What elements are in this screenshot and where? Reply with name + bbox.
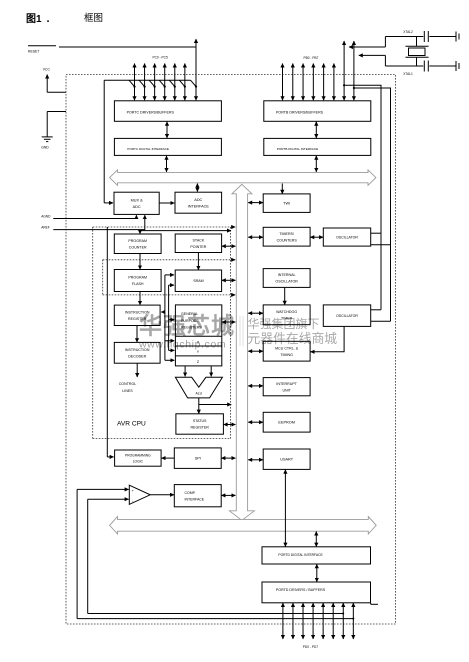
svg-text:XTAL2: XTAL2 bbox=[403, 30, 413, 34]
block PROGRAMMING LOGIC bbox=[115, 450, 162, 466]
PORTD pin column PD0 bbox=[282, 603, 284, 639]
diagonal tap on PC column 0 bbox=[129, 80, 135, 86]
timers to oscillator connector bbox=[310, 236, 323, 238]
diagonal tap on PC column 4 bbox=[169, 80, 175, 86]
tap B into Y register bbox=[169, 349, 175, 351]
PORTC digital to top bus connector bbox=[166, 156, 168, 172]
junction dot PD6 bbox=[342, 613, 344, 615]
svg-text:PC0 - PC5: PC0 - PC5 bbox=[153, 56, 168, 60]
crystal top tap bbox=[416, 37, 418, 47]
ALU output to bus bbox=[199, 404, 231, 406]
comparator - input wire bbox=[88, 498, 129, 500]
crystal bottom tap bbox=[416, 57, 418, 66]
inner boundary bottom edge stub bbox=[371, 603, 378, 605]
dashed-lower arrow into bus bbox=[231, 294, 235, 296]
svg-text:MCU CTRL. &: MCU CTRL. & bbox=[275, 346, 299, 350]
program flash to instruction register bbox=[139, 292, 141, 305]
tap into oscillator (wdt) bottom bbox=[371, 320, 391, 322]
svg-text:POINTER: POINTER bbox=[190, 245, 206, 249]
block SPI bbox=[174, 448, 221, 469]
PORTB pin column PB4 bbox=[323, 64, 325, 101]
inner boundary bottom right stub bbox=[370, 603, 372, 605]
XTAL1 left rise bbox=[384, 55, 386, 66]
svg-text:OSCILLATOR: OSCILLATOR bbox=[336, 314, 358, 318]
svg-text:SPI: SPI bbox=[195, 457, 201, 461]
svg-text:INTERNAL: INTERNAL bbox=[278, 273, 296, 277]
svg-text:PORTB DIGITAL INTERFACE: PORTB DIGITAL INTERFACE bbox=[277, 147, 318, 151]
GP registers to ALU right arrow bbox=[210, 366, 212, 376]
svg-text:LOGIC: LOGIC bbox=[133, 459, 144, 463]
interrupt unit to bus connector bbox=[248, 385, 263, 387]
PORTD pin column PD5 bbox=[332, 603, 334, 639]
VCC arrow up bbox=[46, 75, 48, 93]
program counter to program flash bbox=[139, 254, 141, 269]
tap A into X register bbox=[165, 340, 174, 342]
tap into oscillator (wdt) top bbox=[371, 309, 381, 311]
boundary left wire down to ADC mux bbox=[103, 80, 105, 203]
svg-text:PB0 - PB7: PB0 - PB7 bbox=[304, 56, 319, 60]
block PORTB DRIVERS/BUFFERS bbox=[264, 101, 371, 122]
block PORTD DRIVERS/BUFFERS bbox=[262, 582, 371, 603]
svg-text:RESET: RESET bbox=[28, 50, 39, 54]
dashed memory cutout line lower bbox=[103, 294, 231, 296]
XTAL1 net wire after cap bbox=[429, 65, 455, 67]
VCC wire into frame bbox=[47, 91, 66, 93]
block ADC INTERFACE bbox=[175, 192, 222, 213]
PORTC pin column PC4 bbox=[174, 64, 176, 101]
ground symbol bar2 bbox=[44, 138, 51, 140]
cap C2 plate a bbox=[423, 61, 425, 72]
PORTB drivers-digital connector bbox=[315, 122, 317, 138]
XTAL2 net wire after cap bbox=[429, 36, 455, 38]
block TIMERS/COUNTERS bbox=[263, 227, 310, 246]
block OSCILLATOR (watchdog) bbox=[323, 305, 370, 327]
dashed memory cutout left edge bbox=[102, 260, 104, 295]
AVR CPU dashed boundary right bbox=[230, 227, 232, 439]
svg-text:ADC: ADC bbox=[194, 198, 202, 202]
PORTD pin column PD3 bbox=[312, 603, 314, 639]
PORTD pin column PD7 bbox=[352, 603, 354, 639]
status register to bus connector bbox=[224, 424, 236, 426]
SRAM to bus connector bbox=[222, 279, 236, 281]
block INSTRUCTION DECODER bbox=[114, 342, 160, 363]
cap C1 plate a bbox=[423, 31, 425, 42]
svg-text:SRAM: SRAM bbox=[193, 279, 203, 283]
svg-text:STACK: STACK bbox=[193, 238, 205, 242]
diagonal tap on PC column 2 bbox=[149, 80, 155, 86]
block INTERRUPT UNIT bbox=[263, 378, 310, 396]
SPI to bus connector bbox=[221, 457, 235, 459]
svg-text:DECODER: DECODER bbox=[128, 354, 146, 358]
junction dot on PC column 3 bbox=[164, 86, 166, 88]
bottom bus to PORTD digital connector bbox=[315, 532, 317, 547]
PORTC pin column PC1 bbox=[144, 64, 146, 101]
svg-text:CONTROL: CONTROL bbox=[119, 382, 137, 386]
stack pointer to SRAM bbox=[197, 253, 199, 270]
PORTB pin column PB1 bbox=[292, 64, 294, 101]
AVR CPU dashed boundary bottom bbox=[93, 438, 231, 440]
block STACK POINTER bbox=[175, 234, 221, 253]
PORTB pin column PB2 bbox=[302, 64, 304, 101]
MCU ctrl to bus connector bbox=[248, 350, 263, 352]
dashed-top arrow into bus bbox=[231, 226, 235, 228]
XTAL2 net top wire bbox=[385, 36, 423, 38]
block MCU CTRL. & TIMING bbox=[263, 341, 310, 361]
analog comparator triangle bbox=[129, 485, 150, 504]
timers to bus connector bbox=[248, 236, 263, 238]
svg-text:图1: 图1 bbox=[26, 13, 42, 25]
svg-text:PORTC DRIVERS/BUFFERS: PORTC DRIVERS/BUFFERS bbox=[127, 110, 175, 114]
svg-text:FLASH: FLASH bbox=[132, 282, 144, 286]
comp interface to bus connector bbox=[221, 494, 235, 496]
PORTC pin column PC5 bbox=[184, 64, 186, 101]
PORTC pin column PC0 bbox=[134, 64, 136, 101]
svg-text:TIMING: TIMING bbox=[280, 353, 293, 357]
PORTC drivers-digital connector bbox=[166, 122, 168, 138]
ground symbol bar1 bbox=[42, 136, 53, 138]
block OSCILLATOR (timers) bbox=[323, 228, 370, 246]
junction dot on PC column 4 bbox=[174, 86, 176, 88]
junction dot on PC column 0 bbox=[133, 86, 135, 88]
bus to TWI top arrow bbox=[281, 184, 283, 194]
arrow into programming logic bbox=[107, 456, 113, 458]
PORTD digital to drivers connector bbox=[316, 564, 318, 582]
svg-text:PORTC DIGITAL INTERFACE: PORTC DIGITAL INTERFACE bbox=[127, 147, 169, 151]
svg-text:PROGRAM: PROGRAM bbox=[128, 276, 147, 280]
internal oscillator to watchdog bbox=[284, 288, 286, 305]
tap into oscillator (timers) top bbox=[371, 232, 381, 234]
svg-text:USART: USART bbox=[280, 458, 293, 462]
tap A into SRAM bbox=[165, 274, 174, 276]
indirect addressing line B bbox=[168, 285, 170, 350]
indirect addressing line A bbox=[164, 275, 166, 360]
svg-text:XTAL1: XTAL1 bbox=[403, 72, 413, 76]
oscillator to MCU ctrl wire bbox=[311, 327, 345, 352]
XTAL1 stub to PB6 column bbox=[359, 54, 386, 56]
block INTERNAL OSCILLATOR bbox=[263, 269, 310, 288]
register Z cell bbox=[175, 355, 221, 357]
XTAL2 left drop bbox=[384, 37, 386, 48]
block STATUS REGISTER bbox=[176, 414, 224, 434]
block PROGRAM FLASH bbox=[114, 270, 161, 292]
PORTC pin column PC3 bbox=[164, 64, 166, 101]
XTAL2/PB7 pin column bbox=[343, 41, 345, 100]
svg-text:ALU: ALU bbox=[195, 392, 202, 396]
crystal plate top bbox=[406, 45, 429, 47]
junction dot XTAL2 column bbox=[343, 84, 345, 86]
svg-text:PORTD DRIVERS / BUFFERS: PORTD DRIVERS / BUFFERS bbox=[276, 588, 326, 592]
junction dot on PC column 1 bbox=[143, 86, 145, 88]
svg-text:ADC: ADC bbox=[133, 205, 141, 209]
watermark divider bbox=[239, 316, 241, 346]
svg-text:PORTD DIGITAL INTERFACE: PORTD DIGITAL INTERFACE bbox=[278, 553, 323, 557]
dashed memory cutout line upper bbox=[103, 259, 231, 261]
svg-text:COMP.: COMP. bbox=[185, 491, 196, 495]
comparator - input bottom run to PD6 bbox=[88, 613, 344, 615]
bottom horizontal data bus (double-headed hollow arrow) bbox=[110, 517, 377, 534]
XTAL1/PB6 pin column bbox=[353, 41, 355, 100]
svg-text:TWI: TWI bbox=[283, 202, 290, 206]
bus to program counter wire bbox=[140, 231, 231, 234]
svg-text:框图: 框图 bbox=[84, 12, 103, 24]
svg-text:COUNTER: COUNTER bbox=[129, 245, 147, 249]
svg-text:PORTB DRIVERS/BUFFERS: PORTB DRIVERS/BUFFERS bbox=[276, 110, 324, 114]
left wire down to programming logic bbox=[106, 227, 108, 457]
PORTD pin column PD4 bbox=[322, 603, 324, 639]
block TWI bbox=[263, 194, 310, 213]
TWI to bus connector bbox=[248, 202, 263, 204]
GND wire down bbox=[46, 112, 48, 137]
block INSTRUCTION REGISTER bbox=[114, 305, 160, 325]
comparator output arrow bbox=[150, 494, 174, 496]
svg-text:.: . bbox=[47, 13, 50, 25]
svg-text:INTERRUPT: INTERRUPT bbox=[276, 382, 297, 386]
junction dot on PC column 6 bbox=[195, 86, 197, 88]
svg-text:UNIT: UNIT bbox=[282, 388, 291, 392]
gnd top bar2 bbox=[458, 34, 460, 40]
svg-text:GND: GND bbox=[41, 146, 49, 150]
watchdog to bus connector bbox=[248, 312, 263, 314]
block GENERAL PURPOSE REGISTERS bbox=[175, 305, 221, 366]
XTAL1 net bottom wire bbox=[385, 65, 423, 67]
svg-text:AVR CPU: AVR CPU bbox=[117, 421, 146, 428]
svg-text:www.hqchip.com: www.hqchip.com bbox=[138, 339, 226, 351]
block PORTB DIGITAL INTERFACE bbox=[264, 138, 371, 155]
gnd bottom bar1 bbox=[455, 61, 457, 71]
arrow into MUX & ADC from left boundary wire bbox=[104, 202, 113, 204]
svg-text:LINES: LINES bbox=[122, 389, 133, 393]
block PORTD DIGITAL INTERFACE bbox=[262, 547, 371, 564]
register Y cell bbox=[175, 345, 221, 347]
cap C2 plate b bbox=[427, 61, 429, 72]
MUX to ADC interface arrow bbox=[159, 202, 174, 204]
svg-text:华强芯城: 华强芯城 bbox=[139, 313, 235, 339]
PORTB pin column PB5 bbox=[333, 64, 335, 101]
RESET wire horizontal bbox=[59, 46, 196, 48]
svg-text:REGISTER: REGISTER bbox=[190, 426, 209, 430]
USART to PORTD digital connector bbox=[284, 470, 286, 547]
decoder to control lines arrow bbox=[136, 364, 138, 378]
diagonal tap on PC column 3 bbox=[159, 80, 165, 86]
svg-text:AREF: AREF bbox=[41, 226, 50, 230]
gnd top bar1 bbox=[455, 32, 457, 42]
diagonal tap on PC column 5 bbox=[179, 80, 185, 86]
crystal Q1 body bbox=[409, 48, 426, 56]
svg-text:STATUS: STATUS bbox=[193, 419, 207, 423]
svg-text:AGND: AGND bbox=[41, 214, 51, 218]
XTAL2 stub to PB7 column bbox=[349, 46, 385, 48]
block COMP. INTERFACE bbox=[174, 485, 221, 507]
tap A into Z register bbox=[165, 359, 174, 361]
junction dot PD7 bbox=[352, 618, 354, 620]
svg-text:MUX &: MUX & bbox=[131, 198, 143, 202]
gnd bottom bar2 bbox=[458, 63, 460, 69]
instruction register to instruction decoder bbox=[136, 326, 138, 342]
EEPROM to bus connector bbox=[248, 421, 263, 423]
ALU output down to status register bbox=[198, 398, 200, 414]
XTAL1 route down right side to oscillator bbox=[354, 88, 391, 321]
PORTC pin column PC2 bbox=[154, 64, 156, 101]
PORTB pin column PB3 bbox=[312, 64, 314, 101]
svg-text:INTERFACE: INTERFACE bbox=[188, 204, 210, 208]
tap B into GP registers bbox=[169, 319, 175, 321]
svg-text:PROGRAMMING: PROGRAMMING bbox=[125, 453, 151, 457]
svg-text:VCC: VCC bbox=[43, 67, 51, 71]
svg-text:COUNTERS: COUNTERS bbox=[277, 238, 298, 242]
block PORTC DIGITAL INTERFACE bbox=[114, 138, 221, 155]
crystal plate bottom bbox=[406, 56, 429, 58]
cap C1 plate b bbox=[427, 31, 429, 42]
outer dashed system boundary frame bbox=[66, 75, 396, 625]
AVR CPU dashed boundary left bbox=[92, 227, 94, 439]
dashed-upper arrow into bus bbox=[231, 259, 235, 261]
diagonal tap on PC column 6 bbox=[191, 80, 197, 86]
comparator - input vertical bbox=[87, 499, 89, 613]
block USART bbox=[263, 449, 310, 469]
XTAL2 route down right side to oscillator bbox=[344, 85, 381, 310]
block SRAM bbox=[175, 270, 221, 292]
SPI to programming logic arrow bbox=[162, 457, 175, 459]
comparator + input vertical bbox=[76, 489, 78, 618]
PORTB pin column PB0 bbox=[282, 64, 284, 101]
RESET wire vertical into PORTC drivers bbox=[195, 39, 197, 100]
USART to bus connector bbox=[248, 459, 263, 461]
junction dot on PC column 5 bbox=[184, 86, 186, 88]
register X cell bbox=[175, 335, 221, 337]
PORTB digital to top bus connector bbox=[315, 156, 317, 172]
tap into oscillator (timers) bottom bbox=[371, 244, 391, 246]
svg-text:TIMERS/: TIMERS/ bbox=[279, 232, 294, 236]
junction dot XTAL1 column bbox=[353, 87, 355, 89]
stack pointer to bus connector bbox=[222, 245, 236, 247]
tap A into instruction register bbox=[161, 311, 165, 313]
AREF wire into MUX & ADC bbox=[53, 215, 145, 229]
ALU funnel bbox=[175, 377, 222, 398]
comparator + input bottom run to PD7 bbox=[77, 618, 353, 620]
tap B into SRAM bbox=[169, 284, 174, 286]
GP registers to bus connector bbox=[222, 321, 235, 323]
svg-text:OSCILLATOR: OSCILLATOR bbox=[275, 280, 298, 284]
PORTD pin column PD6 bbox=[342, 603, 344, 639]
PORTD pin column PD2 bbox=[302, 603, 304, 639]
block PROGRAM COUNTER bbox=[114, 234, 161, 254]
vertical 8-bit data bus (hollow arrow, both ends) bbox=[229, 184, 254, 520]
svg-text:EEPROM: EEPROM bbox=[278, 421, 294, 425]
svg-text:INTERFACE: INTERFACE bbox=[185, 497, 205, 501]
AVR CPU dashed boundary top bbox=[93, 226, 231, 228]
ADC collector line from PORTC pins bbox=[104, 79, 190, 81]
block PORTC DRIVERS/BUFFERS bbox=[114, 101, 221, 122]
svg-text:元器件在线商城: 元器件在线商城 bbox=[248, 331, 338, 346]
GP registers to ALU left arrow bbox=[184, 366, 186, 376]
GND wire into frame bbox=[47, 111, 66, 113]
ground symbol bar3 bbox=[46, 141, 48, 143]
block WATCHDOG TIMER bbox=[263, 305, 310, 325]
junction dot on PC column 2 bbox=[154, 86, 156, 88]
RESET overbar bbox=[28, 45, 56, 47]
block MUX & ADC bbox=[114, 192, 159, 214]
ADC interface to bus connector bbox=[196, 184, 198, 192]
svg-text:PROGRAM: PROGRAM bbox=[128, 239, 147, 243]
block EEPROM bbox=[263, 412, 310, 432]
PORTD pin column PD1 bbox=[292, 603, 294, 639]
diagonal tap on PC column 1 bbox=[139, 80, 145, 86]
AGND wire into MUX & ADC bbox=[53, 215, 136, 218]
svg-text:华强集团旗下: 华强集团旗下 bbox=[248, 316, 320, 331]
comparator + input wire bbox=[77, 488, 129, 490]
svg-text:OSCILLATOR: OSCILLATOR bbox=[336, 235, 358, 239]
svg-text:WATCHDOG: WATCHDOG bbox=[276, 310, 297, 314]
top horizontal data bus (double-headed hollow arrow) bbox=[110, 170, 376, 185]
svg-text:PD0 - PD7: PD0 - PD7 bbox=[303, 645, 318, 649]
